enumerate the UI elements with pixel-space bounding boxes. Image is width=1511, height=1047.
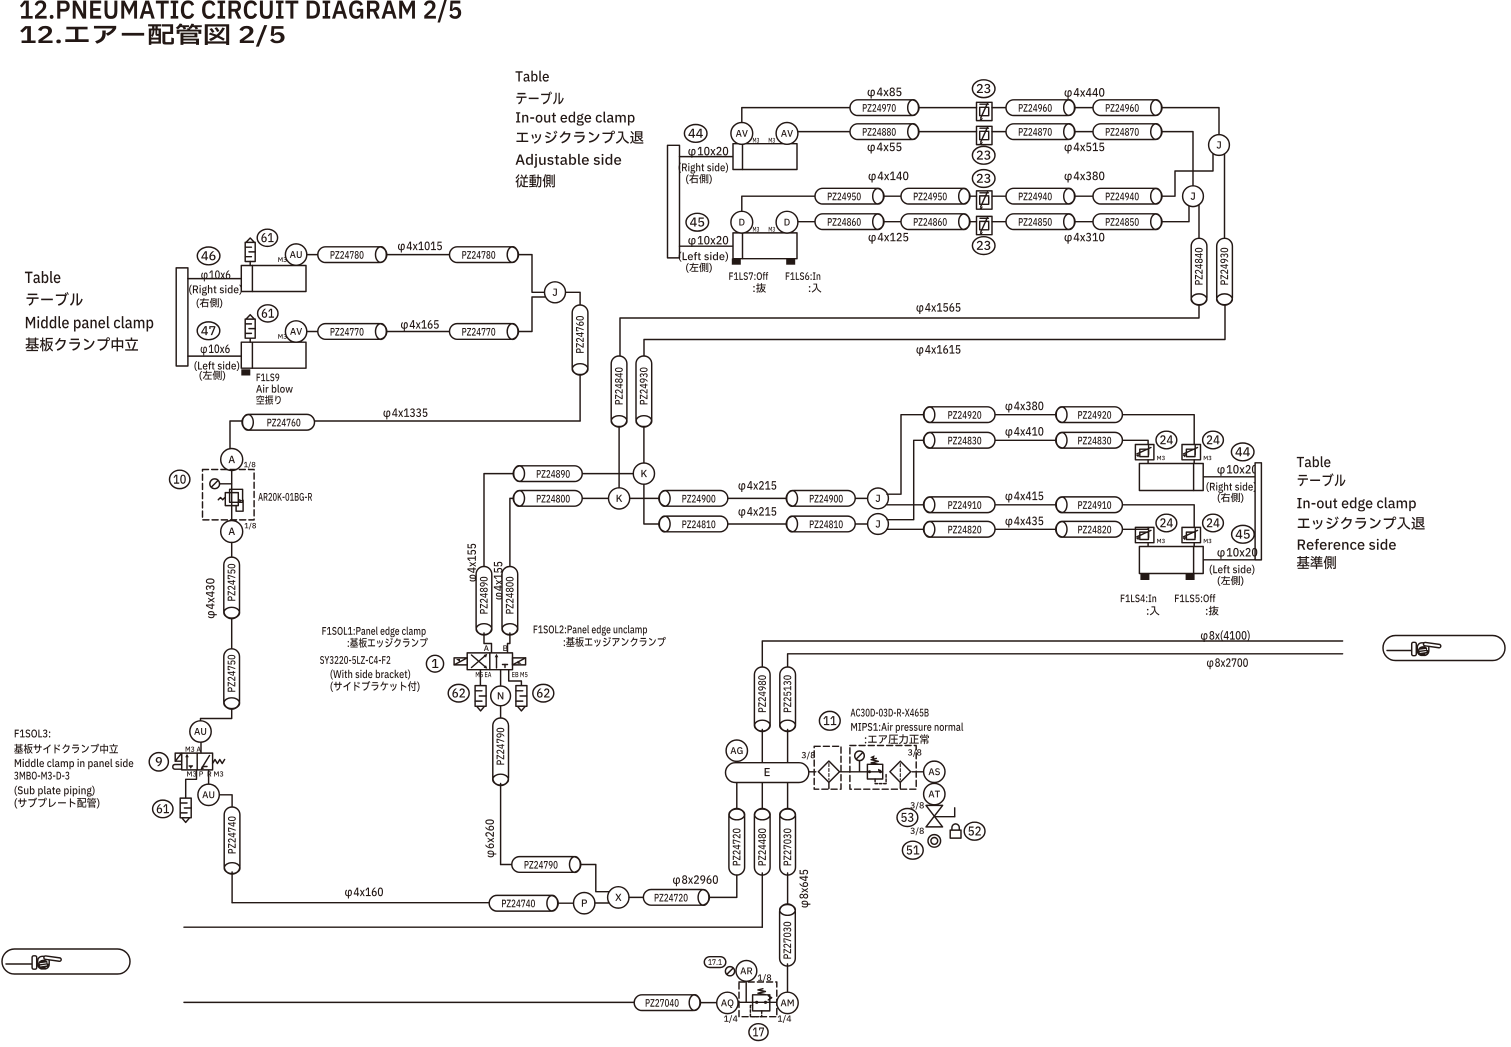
bubble 51 [902,841,923,859]
label phi4x435 (right) [1005,517,1043,528]
bubble 24 (top right) [1203,431,1224,449]
label 3/8 (above valve) [910,802,923,810]
wire PZ24790h to X [581,865,609,892]
wire row2 segs [918,131,977,133]
label: Table In-out edge clamp Adjustable side [515,71,643,188]
wire line phi8x4100 [762,641,1342,667]
pipe PZ24890 vertical [476,567,492,636]
gauge 17.1 [725,967,734,976]
label (left jp) (47) [199,370,225,380]
label 1/8 (A top) [244,462,255,469]
label (Left side) (47) [194,361,239,371]
wire row4 D->PZ24860 [798,221,815,223]
pipe PZ24760 vertical [572,305,588,375]
label (left jp) (45r) [1218,576,1244,586]
label phi10x6 (46) [201,270,230,281]
wire PZ24780 mid [387,254,450,256]
wire AU->PZ24780 [307,254,318,256]
FRL filter (box1) [814,746,841,789]
port AV right of cylinder 44 [776,122,798,144]
bubble 17 [749,1024,768,1041]
label 1/4 (AM) [778,1015,791,1023]
junction J2b [868,514,889,535]
cylinder 46 body [241,266,306,292]
node A (top) [221,449,243,471]
bubble 44 (right) [1231,443,1254,461]
node AS [924,761,945,782]
wire PZ24930 down-left phi4x1615 [644,303,1225,356]
label (Left side) (45) [679,252,728,262]
wire PZ24750 gap [231,619,233,649]
bubble 23 (row1) [972,80,995,98]
label M3 (SC br) [1204,539,1212,543]
wire AT to ball valve [933,804,935,807]
label M3 (44 right) [769,138,775,143]
wire PZ27040 to AQ [701,1002,717,1004]
wire PZ24740 down [231,872,233,903]
wire PZ24890h left-down [484,474,513,567]
pipe PZ24870 a [1006,124,1075,140]
pipe PZ24820 b [1056,521,1123,537]
speed controller row4 [977,216,993,235]
pipe PZ24970 [850,100,919,116]
node AM [777,992,798,1013]
wire J1b to PZ24910 [887,504,924,506]
regulator AR20K-01BG-R (10) [203,470,255,520]
junction K2 [609,488,630,509]
limit switch F1LS6 mark [786,259,795,265]
label block F1SOL3 [14,729,133,808]
pipe PZ24820 a [924,521,996,537]
pipe PZ25130 [780,667,796,732]
label phi4x215 (bottom) [738,507,776,518]
pipe PZ24880 [850,124,919,140]
label R M3 (valve9 bottom) [208,771,224,776]
speed controller 24 (top left) [1135,445,1154,460]
label M3 (cyl46) [278,257,286,262]
wire N to PZ24790v [500,706,502,718]
title line 2 [20,24,284,47]
node AQ [717,992,738,1013]
wire valve P to N [500,670,502,687]
wire box2 to AS [912,771,924,773]
label 3/8 (below valve) [910,827,923,835]
label F1LS5:Off [1175,594,1215,602]
speed controller 24 (bottom right) [1182,527,1201,542]
pipe PZ24930 mid vertical [636,356,652,427]
cylinder 44r body [1139,464,1203,491]
padlock 52 [950,824,961,838]
wire PZ24800v to valve B [508,633,510,653]
wire E to PZ27030v [787,783,789,809]
muffler (61) below valve 9 [180,798,191,822]
port D left of cylinder 45 [731,211,753,233]
label phi4x140 [869,172,909,183]
wire J2 to PZ24840 pipe [1198,201,1200,238]
label (Right side) (46) [189,285,242,296]
wire row3 to J junction [1161,154,1213,196]
bubble 10 [170,470,190,488]
hand marker left [2,949,130,974]
wire PZ24740h to P [558,902,573,904]
wire J2b to PZ24830 [887,440,924,519]
wire SC2b to cyl45r [1193,543,1195,547]
pipe PZ27030 vertical a [780,809,796,876]
speed controller row1 [977,102,993,121]
wire E to PZ24720v [736,783,738,809]
wire PZ24840m to K2 [618,425,620,488]
label phi8x2960 [673,875,718,886]
junction K1 [633,463,654,484]
port D right of cylinder 45 [776,211,798,233]
node X [608,887,629,908]
label F1LS4:In [1121,594,1156,602]
pipe PZ24770 b [450,324,519,340]
wire PZ24840 down-left phi4x1565 [620,303,1199,356]
label F1LS6:In [786,272,821,280]
node A (bottom) [221,521,243,543]
wire J1b to PZ24920 [887,415,924,495]
bubble 47 [197,322,220,340]
bubble 44 [684,124,707,142]
pipe PZ24480 vertical [754,809,770,876]
label phi10x20 (44) [688,147,728,158]
bubble 61 (valve 9) [153,800,173,818]
wire regulator to A2 [231,520,233,521]
label :nuki (F1LS5) [1206,606,1219,616]
pipe PZ24960 a [1006,100,1075,116]
node AG [726,740,747,761]
wire valve EB to muffler [509,670,522,686]
node P [574,893,595,914]
pipe PZ24780 b [450,247,519,263]
wire PZ24920 to SC [1122,415,1194,445]
limit switch F1LS4 mark [1140,574,1149,580]
pipe PZ24790 vertical [493,718,509,786]
label phi4x1565 [916,303,960,314]
label M3 (cyl47) [278,334,286,339]
wire PZ24760 down to line [579,373,581,421]
wire AV->PZ24770 [307,331,318,333]
table bracket (top-right cylinders) [668,145,680,258]
pipe PZ27040 [634,995,700,1011]
pipe PZ24900 a [659,491,728,507]
hand marker right [1383,636,1505,661]
port AV left of cylinder 44 [731,122,753,144]
label (left jp) (45) [686,263,712,273]
speed controller 24 (top right) [1182,445,1201,460]
wire PZ24900 gap [728,497,786,499]
wire AU to valve A port [200,742,202,753]
pipe PZ24720 vertical [729,809,745,876]
wire PZ24810b to J2b [855,523,867,525]
cylinder 46 rod [188,278,241,280]
pipe PZ24910 b [1056,497,1123,513]
muffler 62 left [475,686,486,711]
cylinder 47 rod [188,355,241,357]
table bracket (46/47) [176,268,188,366]
wire PZ24920 gap [995,414,1056,416]
pipe PZ24860 a [815,214,884,230]
node AT [924,783,945,804]
wire row1 segs [918,107,977,109]
label: Table Middle panel clamp [25,271,153,351]
pipe PZ24860 b [901,214,970,230]
label phi4x380 (right) [1005,402,1043,413]
wire K2 to PZ24900a [630,497,659,499]
silencer 51 [928,835,941,848]
wire PZ24890h to K1 [582,473,633,475]
label :iri (F1LS6) [809,284,822,293]
silencer (61) on cylinder 47 [245,315,255,343]
bubble 52 [964,822,985,840]
label phi4x165 [401,320,439,331]
wire row1 to J junction [1161,108,1219,135]
label phi4x160 [345,888,383,899]
pipe PZ24780 a [318,247,387,263]
wire PZ24800h to K2 [582,497,608,499]
label M3 (45 left) [753,227,759,232]
label phi4x55 [868,143,902,154]
pipe PZ24790 horizontal [512,857,581,873]
junction J2 (top right) [1183,186,1204,207]
label phi8x(4100) [1201,630,1250,642]
label phi4x380 [1065,172,1105,183]
wire valve P to muffler [186,770,197,798]
bubble 23 (row2) [972,146,995,164]
pipe PZ24720 horizontal [643,890,709,906]
cylinder 45r body [1139,547,1203,574]
label phi8x645 [799,870,810,908]
pipe PZ24830 a [924,432,996,448]
muffler 62 right [516,686,527,711]
label phi4x85 [868,88,902,99]
port AV cylinder 47 [285,321,306,342]
label (Right side) (44) [679,163,729,174]
wire PZ24480 down to lineA [761,873,763,927]
pipe PZ24750 a [224,557,240,619]
wire SC1b to cyl45r [1147,543,1149,547]
pipe PZ24950 b [901,188,970,204]
label phi4x155 (right) [494,562,505,600]
label Air blow [256,385,293,393]
pipe PZ24760 horizontal [242,414,315,430]
label 1/4 (AQ) [724,1015,737,1023]
bubble 23 (row4) [972,237,995,255]
label F1SOL2 [534,625,666,647]
wire row2 AV->PZ24880 [798,131,850,133]
bubble 46 [197,247,220,265]
bubble 23 (row3) [972,170,995,188]
label AC30D / MIPS1 [851,709,964,745]
bubble 24 (bottom left) [1156,514,1177,532]
pipe PZ24890 horizontal [513,466,582,482]
wire J2b to PZ24820 [887,528,924,530]
pipe PZ24850 a [1006,214,1075,230]
label M3 (44 left) [753,138,759,143]
bubble 24 (bottom right) [1203,514,1224,532]
pipe PZ24770 a [318,324,387,340]
wire PZ24780 to J [519,255,545,293]
wire PZ25130 to E [787,730,789,763]
label M5 EA [476,672,492,677]
wire row1 AV->PZ24970 [742,108,850,123]
pipe PZ24840 mid vertical [611,356,627,427]
wire phi4x160 line [232,902,489,904]
wire row4 segs [883,221,901,223]
wire row4 to J junction [1161,206,1189,222]
label stadium 17.1 [704,957,726,968]
wire AU2 to PZ24740 [219,795,232,807]
wire PZ24750 to AU [201,709,232,721]
label :iri (F1LS4) [1147,606,1160,615]
pipe PZ24800 vertical [502,567,518,636]
wire PZ24720h up to PZ24720v [709,873,736,897]
pipe PZ24940 b [1093,188,1162,204]
manifold E [726,763,809,783]
pipe PZ24740 horizontal [489,895,558,911]
title line 1 [20,0,461,22]
bubble 24 (top left) [1156,431,1177,449]
wire PZ27030a down [787,873,789,904]
label 1/8 (A bottom) [245,523,256,530]
wire PZ24910 to SC [1122,505,1194,528]
label phi10x6 (47) [201,344,230,355]
label phi4x430 [206,578,217,618]
bubble 62 (left) [448,684,469,702]
wire long line B [184,1001,634,1003]
wire J to PZ24760 [566,292,581,305]
pipe PZ24830 b [1056,432,1123,448]
label karaburi [256,395,280,404]
label phi4x1335 [383,408,427,419]
label F1LS9 [257,373,280,381]
label phi4x415 (right) [1005,492,1043,503]
bubble 11 [819,711,840,730]
wire to PZ24790h [501,864,512,866]
label M3 (SC tr) [1204,456,1212,460]
wire PZ24820 to SC [1122,527,1148,529]
label (right jp) (44) [686,174,712,184]
speed controller row3 [977,191,993,210]
bubble 62 (right) [533,684,554,702]
pipe PZ24960 b [1093,100,1162,116]
label phi10x20 (45r) [1217,548,1257,559]
speed controller 24 (bottom left) [1135,527,1154,542]
label (right jp) (44r) [1218,493,1244,503]
label phi4x155 (left) [467,544,478,582]
label phi6x260 [485,819,496,857]
wire row2 to J junction [1161,132,1193,186]
label AR20K-01BG-R [258,493,312,501]
bubble 61 (cyl 47) [258,305,278,322]
valve 1 (SY3220-5LZ-C4-F2) [454,653,525,670]
label M3 (45 right) [769,227,775,232]
cylinder 44 body [733,144,797,170]
pipe PZ24850 b [1093,214,1162,230]
wire J1 to PZ24930 pipe [1224,150,1226,238]
wire K1 down to PZ24810a [644,484,659,524]
wire PZ27030b to AM [787,964,789,992]
label F1SOL1 / SY3220 [320,627,428,692]
bubble 9 [149,753,168,771]
limit switch F1LS5 mark [1186,574,1195,580]
label M3 P (valve9 bottom) [187,771,203,776]
wire filter to reg [840,771,868,773]
pipe PZ24870 b [1093,124,1162,140]
junction J1b [868,488,889,509]
node N [491,686,511,706]
speed controller row2 [977,126,993,145]
limit switch F1LS9 mark [241,369,250,375]
wire PZ24810 gap [728,523,786,525]
cylinder 45 body [733,233,797,259]
wire PZ24770 to J [519,297,545,332]
pipe PZ24950 a [815,188,884,204]
wire PZ24830 to SC [1122,440,1148,444]
cylinder 45 rod [680,245,734,247]
cylinder 44r rod [1194,476,1256,478]
wire E to FRL [809,771,816,773]
label EB M5 [512,672,527,677]
node AR [736,961,757,982]
wire SC1t to cyl44r [1147,460,1149,464]
label phi4x1015 [398,242,442,253]
valve 9 (3MBO-M3-D-3) [173,753,225,770]
wire PZ24770 mid [387,331,450,333]
label 3/8 (FRL left) [802,752,815,760]
wire row3 segs [883,195,901,197]
bubble 45 [686,213,709,231]
pipe PZ27030 vertical b [780,904,796,966]
node AU (above valve 9) [190,721,211,742]
label M3 A (valve9 top) [186,747,201,752]
label phi4x410 (right) [1005,427,1043,438]
label phi10x20 (45) [688,236,728,247]
bubble 61 (cyl 46) [257,229,277,246]
wire PZ24790 down [500,784,502,865]
wire valve EA to muffler [479,670,481,686]
wire valve R to AU2 [208,770,210,784]
label phi4x440 [1065,88,1105,99]
wire A2 to PZ24750 [231,543,233,558]
FRL regulator unit (box2) [850,746,916,790]
silencer (61) on cylinder 46 [245,238,255,266]
wire PZ24980 to E [761,730,763,763]
junction J1 (top right) [1209,135,1230,156]
wire phi4x1335 line [315,420,581,422]
pipe PZ24900 b [786,491,855,507]
wire PZ24830 gap [995,439,1056,441]
pipe PZ24930 right vertical [1217,238,1233,305]
wire SC2t to cyl44r [1193,460,1195,464]
pipe PZ24940 a [1006,188,1075,204]
pipe PZ24920 a [924,407,996,423]
pipe PZ24910 a [924,497,996,513]
label A (valve port) [484,645,489,651]
pipe PZ24980 [754,667,770,732]
label phi10x20 (44r) [1217,465,1257,476]
label phi4x1615 [916,345,960,356]
label (Left side) (45r) [1210,565,1255,575]
wire row3 D->PZ24950 [742,196,815,211]
pipe PZ24810 a [659,516,728,532]
limit switch F1LS7 mark [732,259,741,265]
label: Table In-out edge clamp Reference side [1297,456,1425,569]
wire PZ24890v to valve A [484,633,492,653]
pipe PZ24810 b [786,516,855,532]
pipe PZ24740 vertical [224,807,240,874]
